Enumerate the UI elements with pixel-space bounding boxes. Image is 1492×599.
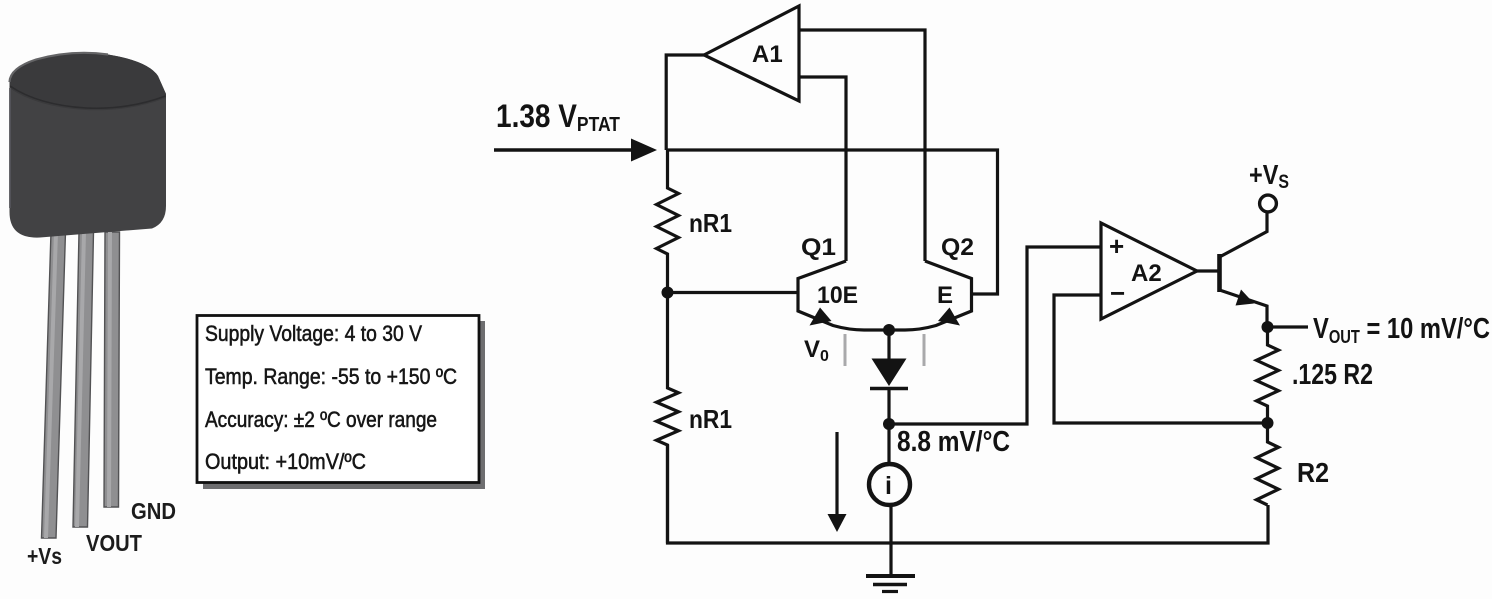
wire: output node to label (1268, 325, 1309, 328)
TO-92 package leg VOUT (73, 232, 94, 527)
input arrow (494, 139, 657, 162)
transistor Q2 (889, 234, 974, 330)
current source I1 (869, 424, 910, 576)
svg-text:A2: A2 (1131, 260, 1162, 287)
svg-text:nR1: nR1 (689, 208, 732, 238)
wire: main horizontal node (666, 150, 998, 294)
svg-text:+Vs: +Vs (27, 543, 62, 569)
svg-text:i: i (885, 472, 892, 500)
current direction arrow (828, 432, 847, 532)
svg-text:VOUT: VOUT (86, 530, 142, 556)
svg-text:Temp. Range: -55 to +150 ºC: Temp. Range: -55 to +150 ºC (205, 364, 457, 389)
node dot 8.8mV (883, 418, 895, 430)
TO-92 package leg GND (104, 232, 120, 507)
wire: A1 tip to left rail (666, 55, 704, 150)
wire: base node to Q1 base (668, 291, 800, 294)
svg-text:Q1: Q1 (801, 234, 836, 261)
svg-text:Q2: Q2 (941, 234, 974, 261)
gray artifact line right (923, 334, 926, 366)
resistor nR1 (top) (657, 150, 733, 292)
diode D1 (870, 329, 908, 424)
spec box (197, 316, 479, 483)
svg-text:A1: A1 (752, 41, 783, 68)
spec box shadow (203, 321, 485, 489)
TO-92 package body (10, 53, 167, 238)
junction dot: feedback node (1262, 417, 1274, 429)
resistor R2 (1257, 423, 1330, 505)
resistor .125 R2 (1257, 327, 1374, 423)
TO-92 package leg +Vs (42, 232, 66, 538)
wire: A1 output top feedback to Q2 collector (799, 30, 925, 261)
output node dot (1262, 321, 1274, 333)
svg-text:E: E (937, 282, 953, 309)
wire: A2 - input feedback (1054, 295, 1268, 423)
resistor nR1 (bottom) (657, 293, 733, 544)
svg-text:Supply Voltage: 4 to 30 V: Supply Voltage: 4 to 30 V (205, 321, 422, 346)
ground (866, 576, 915, 592)
svg-text:−: − (1110, 278, 1125, 308)
svg-text:+: + (1109, 231, 1124, 261)
junction dot: emitters (883, 324, 895, 336)
wire: A1 output lower to Q1 collector (799, 77, 846, 261)
svg-text:8.8 mV/°C: 8.8 mV/°C (897, 426, 1010, 458)
svg-text:Accuracy: ±2 ºC over range: Accuracy: ±2 ºC over range (205, 407, 437, 432)
wire: bottom rail (668, 445, 1269, 543)
gray artifact line left (844, 334, 847, 366)
wire: node to A2 + input (889, 247, 1101, 424)
svg-text:Output: +10mV/ºC: Output: +10mV/ºC (205, 449, 366, 474)
op-amp A1 (704, 6, 799, 101)
junction dot: left rail / base node (662, 287, 674, 299)
svg-text:nR1: nR1 (689, 404, 732, 434)
op-amp A2 (1101, 223, 1197, 319)
+Vs terminal (1249, 159, 1289, 212)
wire: A2 output to Q3 base (1197, 269, 1219, 272)
svg-text:GND: GND (131, 498, 176, 524)
svg-text:10E: 10E (817, 282, 858, 309)
svg-text:.125 R2: .125 R2 (1292, 359, 1373, 391)
transistor Q1 (798, 234, 889, 330)
svg-text:R2: R2 (1297, 457, 1329, 488)
transistor Q3 (output) (1220, 213, 1268, 327)
